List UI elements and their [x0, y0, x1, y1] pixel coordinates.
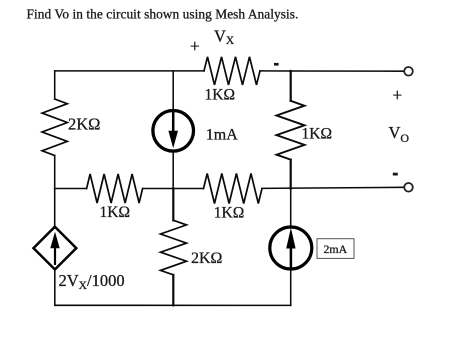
terminal node + (top right open circle) [404, 67, 413, 76]
svg-text:1KΩ: 1KΩ [302, 126, 332, 143]
wire mid rail center segment [143, 188, 204, 190]
current source U2 2mA (circle with up arrow) [270, 227, 312, 269]
wire right column bottom (2mA source to bottom rail) [290, 271, 292, 306]
svg-text:1KΩ: 1KΩ [100, 204, 130, 221]
svg-text:1mA: 1mA [206, 126, 238, 143]
svg-text:2KΩ: 2KΩ [191, 250, 223, 267]
wire left column lower (mid rail to dependent source) [54, 189, 56, 229]
svg-text:2mA: 2mA [324, 242, 348, 256]
wire left column bottom (dependent source to bottom rail) [54, 270, 56, 305]
svg-text:2KΩ: 2KΩ [68, 115, 100, 134]
current source U1 1mA (circle with down arrow) [153, 111, 194, 152]
svg-text:+: + [392, 85, 402, 105]
svg-text:1KΩ: 1KΩ [205, 86, 235, 103]
wire mid rail left segment [55, 188, 87, 190]
svg-text:1KΩ: 1KΩ [214, 205, 244, 222]
wire right column lower (mid rail to 2mA source) [290, 189, 292, 226]
dependent current source 2Vx/1000 (diamond with up arrow) [34, 227, 77, 270]
svg-text:+: + [190, 36, 200, 56]
resistor 1KΩ (mid right) [204, 174, 263, 204]
wire middle branch upper (top rail to 1mA source) [172, 71, 174, 109]
svg-text:2VX/1000: 2VX/1000 [59, 271, 125, 292]
wire top rail left (node A to resistor) [55, 70, 204, 72]
resistor 2KΩ (left vertical) [42, 99, 67, 156]
wire right column middle (1KΩ to mid rail) [290, 160, 292, 189]
wire middle 2KΩ branch lower (resistor to bottom rail) [172, 275, 174, 305]
label - (Vo polarity) [393, 173, 398, 176]
wire top rail right of resistor to node B [260, 70, 291, 72]
wire right column upper (top rail into 1KΩ) [290, 71, 292, 101]
resistor 2KΩ (middle vertical) [161, 220, 187, 275]
resistor 1KΩ (right vertical, across Vo branch) [277, 101, 305, 160]
wire top rail node B to + terminal [291, 70, 403, 72]
wire mid rail to - terminal [262, 187, 403, 188]
terminal node - (bottom right open circle) [404, 183, 413, 192]
wire middle 2KΩ branch upper (mid rail to resistor) [172, 189, 174, 221]
label - (Vx polarity) [274, 63, 279, 66]
svg-text:Find Vo in the circuit shown u: Find Vo in the circuit shown using Mesh … [27, 7, 299, 22]
wire middle branch lower (1mA source to mid rail) [172, 153, 174, 189]
resistor 1KΩ (top, Vx across it) [204, 57, 260, 85]
wire left column middle (2KΩ to mid rail) [54, 156, 56, 189]
resistor 1KΩ (mid left) [87, 174, 143, 203]
wire left column upper (x=54) [54, 71, 56, 99]
svg-text:VX: VX [214, 26, 235, 47]
svg-text:VO: VO [389, 123, 410, 145]
wire bottom rail [55, 304, 291, 306]
label box 2mA (boxed source value) [317, 239, 354, 259]
